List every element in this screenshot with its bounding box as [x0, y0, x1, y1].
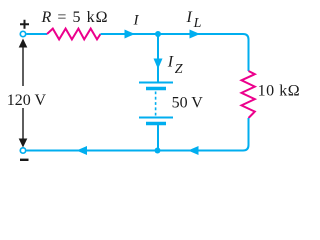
label + (top terminal polarity)	[20, 20, 29, 29]
battery B1 (50 V) top cell long plate	[139, 82, 173, 84]
svg-text:Z: Z	[175, 62, 183, 77]
return current arrow (left of bottom junction)	[77, 146, 88, 155]
svg-text:L: L	[193, 16, 202, 31]
current arrow I on top wire	[125, 30, 136, 39]
svg-text:I: I	[167, 54, 174, 71]
120V annotation arrow up	[22, 46, 24, 86]
120V annotation arrow down	[22, 108, 24, 140]
terminal: - node circle (bottom left)	[20, 148, 25, 153]
resistor R2 (10 kOhm)	[242, 71, 255, 118]
svg-text:50 V: 50 V	[172, 94, 204, 111]
label - (bottom terminal polarity)	[20, 159, 29, 161]
return current arrow (right of bottom junction)	[188, 146, 199, 155]
svg-text:120 V: 120 V	[7, 92, 47, 109]
svg-text:I: I	[133, 13, 140, 29]
battery B1 bottom cell short thick plate	[146, 122, 166, 126]
svg-text:R = 5 kΩ: R = 5 kΩ	[41, 9, 109, 26]
wire: top-left segment from + terminal to R	[27, 33, 48, 35]
svg-text:I: I	[186, 9, 193, 26]
node: top junction	[155, 31, 161, 37]
wire: right branch lower + bottom return wire	[27, 118, 249, 151]
node: bottom junction	[155, 148, 161, 154]
resistor R1 (R = 5 kOhm)	[47, 29, 101, 40]
terminal: + node circle (top left)	[20, 31, 25, 36]
battery B1 bottom cell long plate	[139, 117, 173, 119]
wire: middle branch lower lead	[157, 125, 159, 151]
wire: top segment from R to right corner, down right side to 10k resistor	[101, 34, 249, 71]
current arrow IZ on middle branch	[154, 59, 163, 70]
battery B1 top cell short thick plate	[146, 87, 166, 91]
wire: middle branch upper lead	[157, 34, 159, 82]
svg-text:10 kΩ: 10 kΩ	[258, 83, 301, 100]
current arrow IL on top wire	[190, 30, 201, 39]
battery B1 dashed middle link	[155, 92, 157, 116]
